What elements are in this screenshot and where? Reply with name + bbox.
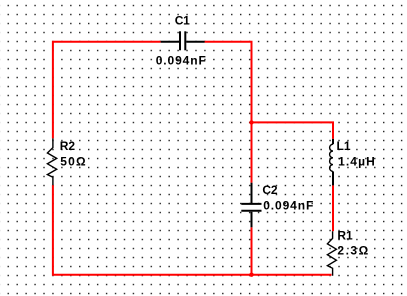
svg-text:C2: C2: [262, 183, 277, 197]
svg-text:2.3Ω: 2.3Ω: [337, 244, 369, 258]
svg-text:0.094nF: 0.094nF: [263, 199, 314, 213]
svg-text:50Ω: 50Ω: [60, 155, 87, 169]
svg-text:C1: C1: [175, 13, 190, 27]
svg-text:R1: R1: [337, 228, 353, 242]
svg-text:1.4µH: 1.4µH: [338, 154, 376, 168]
svg-text:0.094nF: 0.094nF: [156, 53, 207, 67]
svg-text:R2: R2: [60, 139, 76, 153]
svg-text:L1: L1: [337, 139, 351, 153]
